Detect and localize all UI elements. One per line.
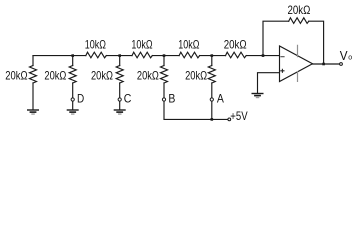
switch contact A: [210, 98, 213, 101]
svg-text:10kΩ: 10kΩ: [178, 37, 199, 51]
svg-text:20kΩ: 20kΩ: [224, 37, 247, 51]
resistor 20k shunt B: [161, 66, 168, 84]
switch contact D: [71, 98, 74, 101]
node feedback-output junction: [322, 63, 325, 66]
ground (left 20k): [27, 109, 39, 114]
node C junction: [118, 54, 121, 57]
switch contact C: [118, 98, 121, 101]
wire switch B to +5V rail: [164, 101, 228, 119]
resistor 20k shunt C: [116, 66, 123, 84]
svg-text:20kΩ: 20kΩ: [137, 69, 159, 83]
ground (switch D): [67, 109, 79, 114]
svg-text:V: V: [340, 48, 348, 63]
ground (op-amp + input): [252, 93, 264, 98]
wire left column lead: [32, 56, 34, 110]
terminal +5V: [228, 118, 231, 121]
svg-text:o: o: [348, 55, 352, 62]
svg-text:D: D: [77, 92, 84, 106]
svg-text:20kΩ: 20kΩ: [287, 3, 310, 17]
wire column C leads: [119, 56, 121, 110]
resistor 20k shunt D: [69, 66, 76, 84]
wire feedback loop: [263, 21, 324, 64]
wire noninverting input to ground: [258, 73, 280, 93]
ground (switch C): [114, 109, 126, 114]
resistor 20k leftmost shunt: [30, 66, 37, 84]
wire top rail: [33, 55, 280, 57]
svg-text:20kΩ: 20kΩ: [5, 69, 27, 83]
node D junction: [71, 54, 74, 57]
svg-text:20kΩ: 20kΩ: [44, 69, 66, 83]
wire column D leads: [72, 56, 74, 110]
node feedback tap junction: [262, 54, 265, 57]
switch contact B: [162, 98, 165, 101]
resistor R3 10k series: [179, 52, 200, 58]
svg-text:C: C: [124, 92, 132, 106]
svg-text:10kΩ: 10kΩ: [85, 37, 106, 51]
op-amp U1: [280, 45, 313, 82]
svg-text:A: A: [217, 92, 224, 106]
svg-text:B: B: [168, 92, 175, 106]
resistor R2 10k series: [132, 52, 152, 58]
resistor RF 20k feedback: [289, 18, 309, 24]
wire switch A to +5V rail: [211, 101, 213, 119]
node B junction: [163, 54, 166, 57]
resistor R1 10k series: [86, 52, 107, 58]
resistor R4 20k series: [226, 52, 247, 58]
svg-text:+5V: +5V: [230, 109, 247, 123]
terminal Vo: [340, 63, 343, 66]
resistor 20k shunt A: [208, 66, 215, 84]
wire output: [313, 63, 340, 65]
svg-text:10kΩ: 10kΩ: [131, 37, 152, 51]
svg-text:20kΩ: 20kΩ: [91, 69, 113, 83]
svg-text:20kΩ: 20kΩ: [185, 69, 207, 83]
node A bottom junction: [211, 118, 214, 121]
wire column A leads: [211, 56, 213, 98]
node A junction: [211, 54, 214, 57]
wire column B leads: [163, 56, 165, 98]
